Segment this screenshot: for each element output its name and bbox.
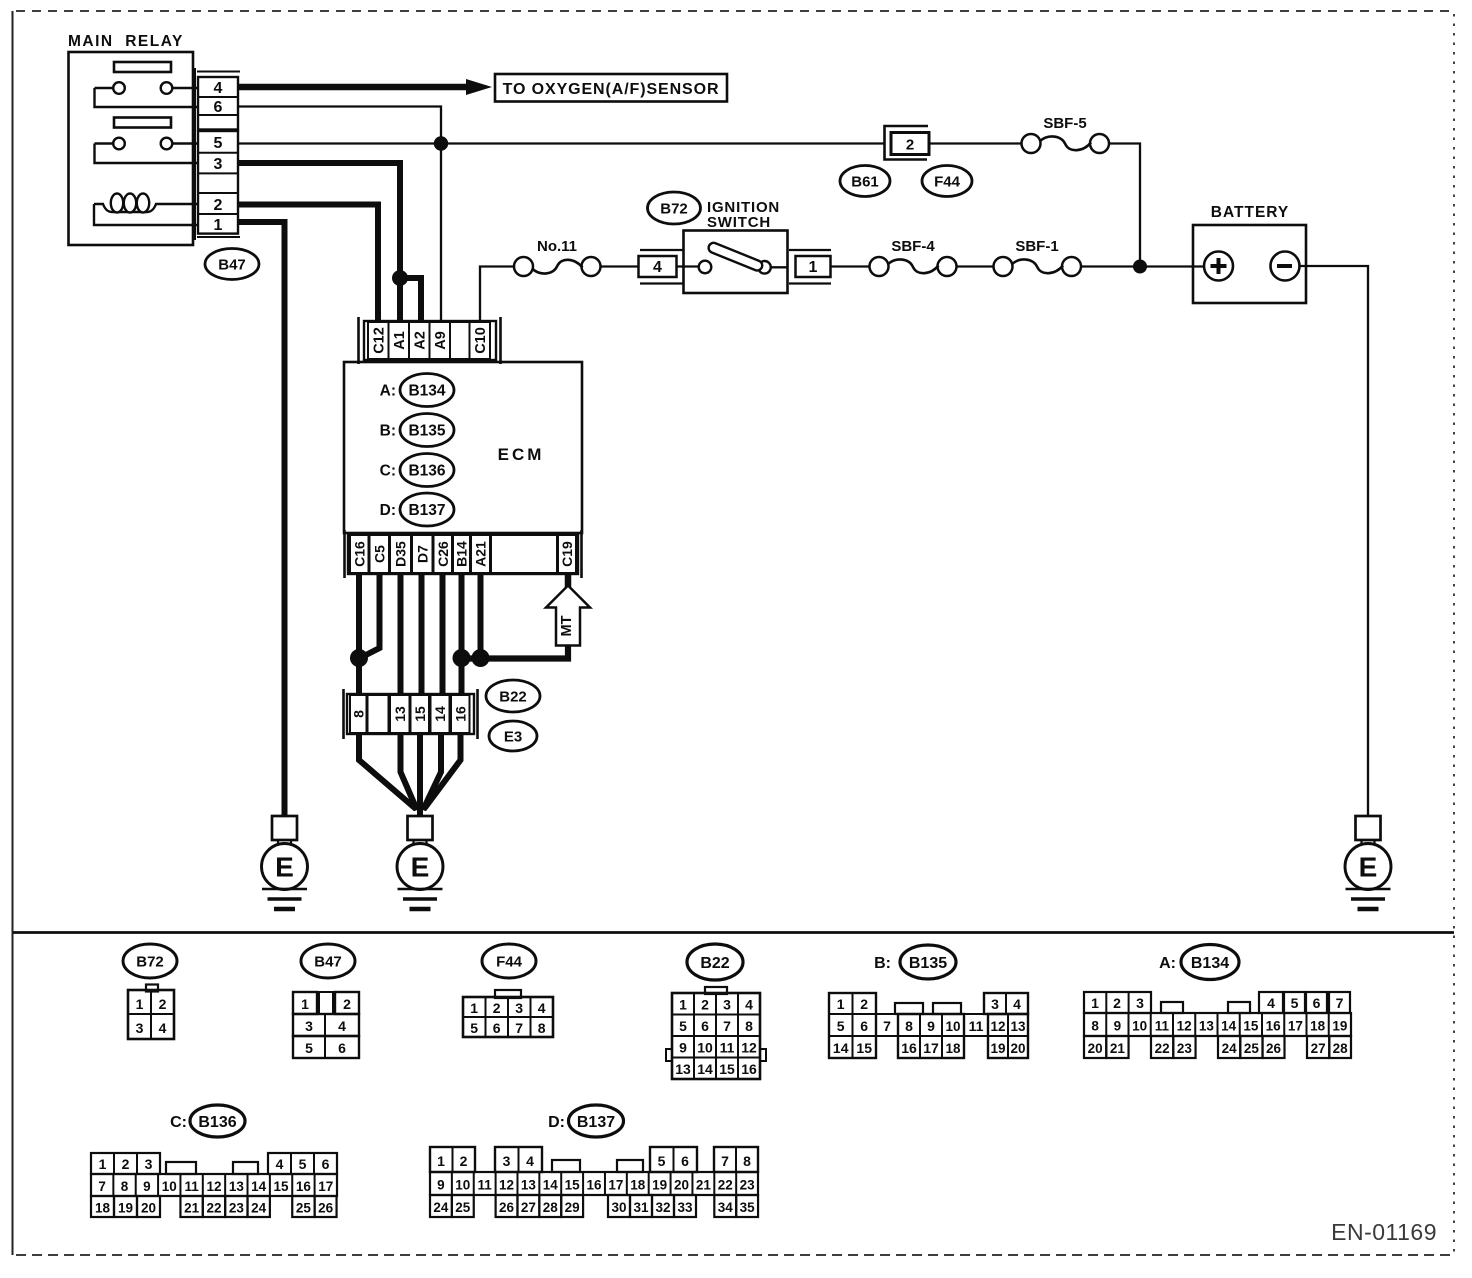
svg-text:B135: B135 [408, 423, 445, 440]
svg-text:21: 21 [696, 1177, 712, 1192]
svg-text:6: 6 [322, 1156, 330, 1172]
svg-text:22: 22 [1155, 1041, 1170, 1056]
svg-text:6: 6 [701, 1018, 709, 1034]
svg-text:30: 30 [611, 1200, 626, 1215]
svg-text:23: 23 [740, 1177, 756, 1192]
svg-text:7: 7 [883, 1018, 891, 1034]
svg-text:C10: C10 [473, 327, 489, 354]
svg-text:31: 31 [633, 1200, 649, 1215]
svg-text:12: 12 [1177, 1019, 1192, 1034]
svg-text:9: 9 [437, 1177, 445, 1192]
svg-text:TO OXYGEN(A/F)SENSOR: TO OXYGEN(A/F)SENSOR [503, 81, 720, 98]
svg-text:6: 6 [681, 1153, 689, 1169]
svg-text:B134: B134 [408, 383, 445, 400]
svg-text:1: 1 [809, 259, 818, 276]
svg-text:3: 3 [991, 996, 999, 1012]
svg-text:19: 19 [1332, 1019, 1347, 1034]
svg-text:26: 26 [499, 1200, 515, 1215]
svg-text:B22: B22 [700, 955, 729, 972]
svg-text:13: 13 [1199, 1019, 1215, 1034]
svg-text:14: 14 [543, 1177, 559, 1192]
svg-text:5: 5 [214, 135, 223, 152]
svg-text:A9: A9 [433, 331, 449, 350]
svg-text:4: 4 [338, 1018, 346, 1034]
svg-text:20: 20 [141, 1200, 156, 1215]
svg-text:34: 34 [718, 1200, 734, 1215]
svg-text:EN-01169: EN-01169 [1331, 1219, 1437, 1245]
svg-text:12: 12 [741, 1039, 757, 1055]
svg-text:7: 7 [515, 1020, 523, 1036]
svg-text:MT: MT [559, 615, 575, 636]
svg-text:SBF-1: SBF-1 [1015, 238, 1058, 255]
svg-text:4: 4 [538, 1000, 546, 1016]
svg-text:4: 4 [1267, 995, 1275, 1011]
svg-text:27: 27 [521, 1200, 536, 1215]
svg-text:3: 3 [305, 1018, 313, 1034]
svg-text:16: 16 [452, 706, 468, 722]
svg-text:19: 19 [118, 1200, 133, 1215]
svg-text:11: 11 [478, 1177, 493, 1192]
svg-text:22: 22 [206, 1200, 221, 1215]
svg-text:B:: B: [874, 955, 891, 972]
svg-text:3: 3 [503, 1153, 511, 1169]
svg-text:C16: C16 [351, 541, 367, 567]
svg-text:33: 33 [677, 1200, 693, 1215]
svg-text:7: 7 [721, 1153, 729, 1169]
svg-text:1: 1 [679, 996, 687, 1012]
svg-text:28: 28 [1333, 1041, 1349, 1056]
svg-text:5: 5 [837, 1018, 845, 1034]
svg-text:10: 10 [1132, 1019, 1147, 1034]
svg-text:F44: F44 [496, 953, 523, 970]
svg-text:1: 1 [1091, 995, 1099, 1011]
svg-text:5: 5 [305, 1040, 313, 1056]
svg-text:8: 8 [1091, 1019, 1099, 1034]
svg-text:35: 35 [740, 1200, 756, 1215]
svg-text:25: 25 [296, 1200, 312, 1215]
svg-text:C12: C12 [371, 327, 387, 354]
svg-text:2: 2 [493, 1000, 501, 1016]
svg-text:10: 10 [697, 1039, 713, 1055]
svg-text:4: 4 [214, 80, 223, 97]
svg-text:1: 1 [837, 996, 845, 1012]
svg-text:19: 19 [990, 1041, 1005, 1056]
svg-text:1: 1 [437, 1153, 445, 1169]
svg-text:5: 5 [679, 1018, 687, 1034]
svg-text:8: 8 [743, 1153, 751, 1169]
svg-text:28: 28 [543, 1200, 559, 1215]
svg-text:32: 32 [655, 1200, 670, 1215]
svg-text:4: 4 [159, 1020, 167, 1036]
svg-text:3: 3 [515, 1000, 523, 1016]
svg-text:2: 2 [1113, 995, 1121, 1011]
svg-text:E3: E3 [504, 728, 522, 745]
svg-text:7: 7 [98, 1179, 106, 1194]
svg-text:13: 13 [392, 706, 408, 722]
svg-text:18: 18 [1310, 1019, 1326, 1034]
svg-text:24: 24 [251, 1200, 267, 1215]
svg-text:1: 1 [136, 996, 144, 1012]
svg-text:2: 2 [460, 1153, 468, 1169]
svg-text:A1: A1 [392, 331, 408, 350]
svg-text:6: 6 [493, 1020, 501, 1036]
svg-text:16: 16 [901, 1040, 917, 1056]
svg-text:18: 18 [945, 1041, 961, 1056]
svg-text:8: 8 [121, 1179, 129, 1194]
svg-text:2: 2 [906, 137, 914, 154]
svg-text:10: 10 [945, 1019, 960, 1034]
svg-text:4: 4 [1013, 996, 1021, 1012]
svg-text:1: 1 [301, 996, 309, 1012]
svg-text:BATTERY: BATTERY [1211, 204, 1289, 221]
svg-text:11: 11 [969, 1018, 984, 1034]
svg-text:D35: D35 [393, 541, 409, 567]
svg-text:17: 17 [318, 1179, 333, 1194]
svg-text:20: 20 [1010, 1041, 1025, 1056]
svg-text:5: 5 [1291, 995, 1299, 1011]
svg-text:14: 14 [1221, 1019, 1237, 1034]
svg-text:10: 10 [455, 1177, 470, 1192]
svg-text:23: 23 [1177, 1041, 1193, 1056]
svg-text:ECM: ECM [498, 445, 545, 464]
svg-text:E: E [1359, 852, 1378, 883]
svg-text:14: 14 [697, 1061, 713, 1077]
svg-text:17: 17 [608, 1177, 623, 1192]
svg-text:B14: B14 [454, 541, 470, 567]
svg-text:14: 14 [251, 1179, 267, 1194]
svg-text:16: 16 [741, 1061, 757, 1077]
svg-text:16: 16 [1266, 1019, 1282, 1034]
svg-text:E: E [411, 852, 430, 883]
svg-text:6: 6 [1313, 995, 1321, 1011]
svg-text:15: 15 [1243, 1019, 1259, 1034]
svg-text:16: 16 [587, 1177, 603, 1192]
svg-text:1: 1 [99, 1156, 107, 1172]
svg-text:11: 11 [184, 1179, 199, 1194]
svg-text:A21: A21 [473, 541, 489, 567]
svg-text:17: 17 [1288, 1019, 1303, 1034]
svg-text:19: 19 [652, 1177, 667, 1192]
svg-text:6: 6 [860, 1018, 868, 1034]
svg-text:C:: C: [170, 1114, 187, 1131]
svg-text:3: 3 [214, 156, 223, 173]
svg-text:C5: C5 [371, 545, 387, 563]
svg-text:13: 13 [229, 1179, 245, 1194]
svg-text:21: 21 [1110, 1041, 1126, 1056]
svg-text:MAIN RELAY: MAIN RELAY [68, 33, 184, 50]
svg-text:13: 13 [675, 1061, 691, 1077]
svg-text:6: 6 [338, 1040, 346, 1056]
svg-text:8: 8 [538, 1020, 546, 1036]
svg-text:2: 2 [860, 996, 868, 1012]
svg-text:15: 15 [856, 1040, 872, 1056]
svg-text:4: 4 [526, 1153, 534, 1169]
svg-text:3: 3 [723, 996, 731, 1012]
svg-text:18: 18 [630, 1177, 646, 1192]
svg-text:B61: B61 [851, 173, 879, 190]
svg-text:6: 6 [214, 99, 223, 116]
svg-text:15: 15 [565, 1177, 581, 1192]
svg-text:B:: B: [380, 423, 396, 440]
svg-text:29: 29 [565, 1200, 580, 1215]
svg-text:5: 5 [470, 1020, 478, 1036]
svg-text:16: 16 [296, 1179, 312, 1194]
svg-text:B72: B72 [136, 953, 164, 970]
svg-text:D:: D: [548, 1114, 565, 1131]
svg-text:20: 20 [674, 1177, 689, 1192]
svg-text:14: 14 [432, 706, 448, 722]
svg-text:11: 11 [1155, 1019, 1170, 1034]
svg-text:4: 4 [276, 1156, 284, 1172]
svg-text:9: 9 [1114, 1019, 1122, 1034]
svg-text:B136: B136 [408, 463, 445, 480]
svg-text:SBF-4: SBF-4 [891, 238, 935, 255]
svg-text:24: 24 [1222, 1041, 1238, 1056]
svg-text:2: 2 [214, 197, 223, 214]
svg-text:3: 3 [1136, 995, 1144, 1011]
svg-text:B134: B134 [1191, 955, 1229, 972]
svg-text:21: 21 [184, 1200, 200, 1215]
svg-text:B137: B137 [577, 1114, 615, 1131]
svg-text:9: 9 [679, 1039, 687, 1055]
svg-text:10: 10 [162, 1179, 177, 1194]
svg-text:27: 27 [1311, 1041, 1326, 1056]
svg-text:SBF-5: SBF-5 [1043, 115, 1086, 132]
svg-text:13: 13 [1010, 1019, 1026, 1034]
svg-text:B47: B47 [314, 953, 342, 970]
svg-text:22: 22 [718, 1177, 733, 1192]
svg-text:9: 9 [927, 1018, 935, 1034]
svg-text:23: 23 [229, 1200, 245, 1215]
svg-text:13: 13 [521, 1177, 537, 1192]
svg-text:3: 3 [136, 1020, 144, 1036]
svg-text:2: 2 [343, 996, 351, 1012]
svg-text:3: 3 [145, 1156, 153, 1172]
svg-text:C26: C26 [435, 541, 451, 567]
svg-text:15: 15 [274, 1179, 290, 1194]
svg-text:5: 5 [658, 1153, 666, 1169]
svg-text:D7: D7 [414, 545, 430, 563]
svg-text:A:: A: [380, 383, 396, 400]
svg-text:7: 7 [1336, 995, 1344, 1011]
svg-text:A2: A2 [412, 331, 428, 350]
svg-text:8: 8 [905, 1018, 913, 1034]
svg-text:5: 5 [299, 1156, 307, 1172]
svg-text:25: 25 [455, 1200, 471, 1215]
svg-text:A:: A: [1159, 955, 1176, 972]
svg-text:7: 7 [723, 1018, 731, 1034]
svg-text:B137: B137 [408, 502, 445, 519]
svg-text:17: 17 [923, 1040, 939, 1056]
svg-text:18: 18 [95, 1200, 111, 1215]
svg-text:C19: C19 [559, 541, 575, 567]
svg-text:11: 11 [720, 1039, 735, 1055]
svg-text:B135: B135 [909, 955, 947, 972]
svg-text:B136: B136 [198, 1114, 236, 1131]
svg-text:2: 2 [159, 996, 167, 1012]
svg-text:12: 12 [990, 1019, 1005, 1034]
svg-text:9: 9 [143, 1179, 151, 1194]
svg-text:B47: B47 [218, 256, 246, 273]
svg-text:F44: F44 [934, 173, 961, 190]
svg-text:2: 2 [701, 996, 709, 1012]
svg-text:8: 8 [350, 710, 366, 718]
svg-text:4: 4 [653, 259, 662, 276]
svg-text:12: 12 [499, 1177, 514, 1192]
svg-text:12: 12 [206, 1179, 221, 1194]
svg-text:15: 15 [412, 706, 428, 722]
svg-text:26: 26 [1266, 1041, 1282, 1056]
svg-text:25: 25 [1244, 1041, 1260, 1056]
svg-text:1: 1 [470, 1000, 478, 1016]
svg-text:B72: B72 [660, 200, 688, 217]
svg-text:26: 26 [318, 1200, 334, 1215]
svg-text:SWITCH: SWITCH [707, 214, 771, 231]
svg-text:24: 24 [433, 1200, 449, 1215]
svg-text:C:: C: [380, 463, 396, 480]
svg-text:2: 2 [122, 1156, 130, 1172]
svg-text:14: 14 [833, 1040, 849, 1056]
svg-text:8: 8 [745, 1018, 753, 1034]
svg-text:E: E [275, 852, 294, 883]
svg-text:15: 15 [719, 1061, 735, 1077]
svg-text:4: 4 [745, 996, 753, 1012]
svg-text:No.11: No.11 [537, 238, 577, 255]
svg-text:20: 20 [1088, 1041, 1103, 1056]
svg-text:B22: B22 [499, 688, 527, 705]
svg-text:1: 1 [214, 217, 223, 234]
svg-text:D:: D: [380, 502, 396, 519]
